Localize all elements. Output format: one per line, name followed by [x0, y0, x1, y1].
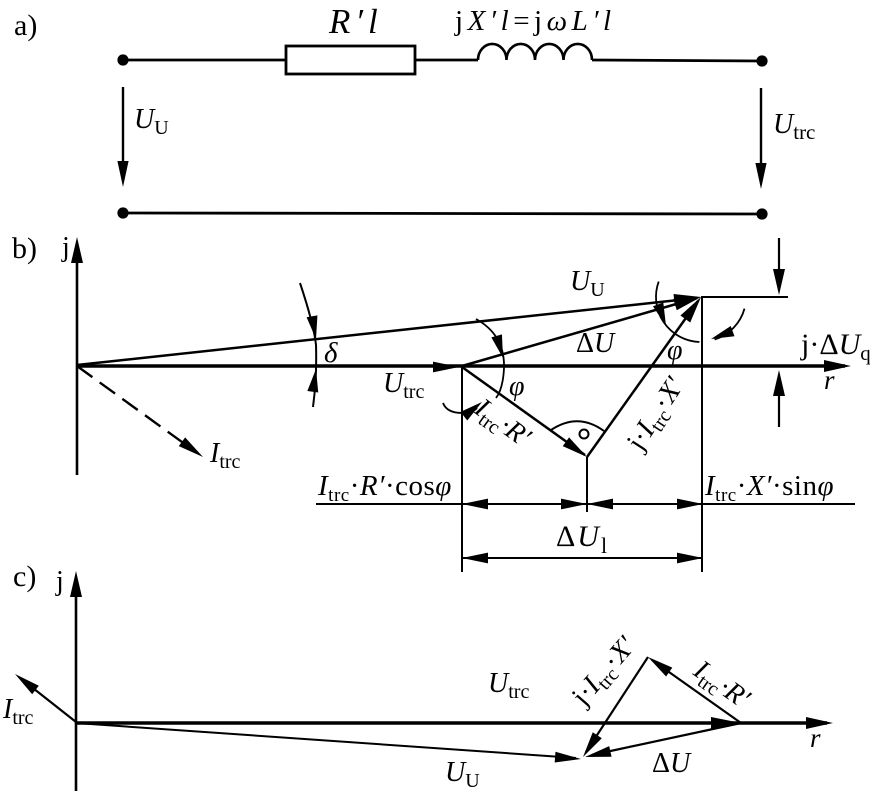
vector I_trc (c) — [24, 681, 76, 722]
node right-bottom — [756, 208, 767, 219]
construction vertical right — [701, 297, 703, 572]
construction vertical at U_trc tip — [461, 367, 463, 572]
svg-text:j: j — [55, 566, 64, 597]
voltage arrow U_trc — [760, 88, 762, 167]
vector j I_trc X' (c) — [586, 657, 648, 752]
dimension j dUq upper — [778, 238, 780, 272]
svg-text:c): c) — [13, 560, 36, 593]
node left-top — [117, 54, 128, 65]
dimension line horizontal 2 — [462, 557, 703, 559]
vector U_trc arrowhead (b) — [433, 362, 459, 373]
svg-text:R′l: R′l — [328, 2, 383, 41]
right angle marker with circle — [551, 421, 604, 431]
axis r (b) — [77, 364, 845, 367]
wire between resistor and inductor — [415, 59, 478, 62]
svg-text:a): a) — [14, 9, 37, 42]
dim1 arrow mid-left — [587, 499, 613, 510]
voltage arrow U_U — [122, 87, 124, 165]
dim1 arrow left-out — [462, 499, 488, 510]
construction vertical at vertex — [586, 457, 588, 512]
node right-top — [756, 55, 767, 66]
vector j I_trc X' (b) — [587, 301, 698, 457]
svg-text:ΔU: ΔU — [576, 328, 616, 359]
svg-text:δ: δ — [324, 337, 338, 369]
svg-text:φ: φ — [667, 335, 683, 366]
svg-text:jX′l=jωL′l: jX′l=jωL′l — [454, 5, 616, 37]
curved arrow below junction — [443, 403, 477, 413]
arc around tip left — [656, 282, 699, 342]
vector I_trc dashed (b) — [77, 366, 193, 450]
vector dU (b) — [462, 298, 697, 366]
angle delta arrow onto r axis — [307, 368, 321, 392]
vector I_trc R' (c) — [652, 660, 741, 723]
axis j (b) — [76, 243, 79, 475]
wire bottom — [123, 213, 762, 214]
dim1 arrow right-out — [677, 499, 703, 510]
vector dU (c) — [592, 723, 741, 755]
svg-text:ΔU: ΔU — [652, 748, 692, 779]
vector I_trc R' (b) — [462, 367, 585, 455]
dim2 arrow left — [462, 553, 488, 564]
vector U_trc arrowhead (c) — [711, 717, 741, 729]
svg-text:r: r — [810, 723, 821, 753]
axis j (c) — [75, 577, 78, 791]
arc phi at junction — [476, 319, 504, 398]
curved arrow right of tip — [715, 309, 745, 340]
angle delta arrow onto U_U — [307, 315, 322, 340]
wire top right — [592, 60, 762, 61]
axis r (c) — [76, 721, 827, 724]
svg-text:j·ΔUq: j·ΔUq — [800, 328, 870, 365]
node left-bottom — [117, 207, 128, 218]
svg-text:j: j — [61, 232, 70, 263]
dim2 arrow right — [677, 553, 703, 564]
inductor jX'l — [478, 44, 592, 60]
wire top left — [123, 59, 286, 62]
svg-text:φ: φ — [509, 371, 525, 402]
dim1 arrow mid-right — [561, 499, 587, 510]
vector U_U (b) — [77, 298, 697, 365]
construction horizontal top — [701, 296, 788, 298]
resistor R'l — [286, 46, 415, 74]
svg-text:r: r — [824, 365, 835, 395]
vector U_U (c) — [76, 723, 576, 758]
svg-text:b): b) — [12, 232, 37, 265]
dimension j dUq lower — [778, 392, 780, 427]
angle delta leader curve — [300, 283, 316, 407]
dimension line horizontal 1 — [316, 503, 855, 505]
